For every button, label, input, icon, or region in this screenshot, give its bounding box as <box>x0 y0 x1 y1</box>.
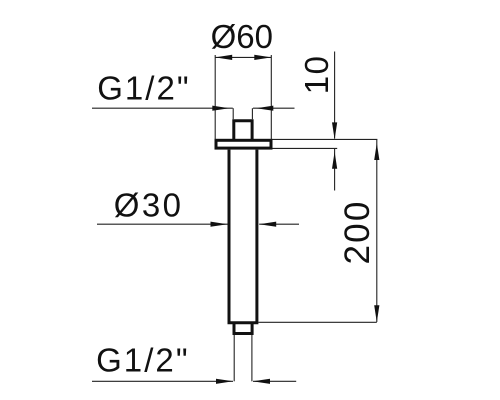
dim Ø60 arrow right <box>254 55 271 60</box>
dim G1/2 top extension lines <box>233 108 252 119</box>
svg-text:Ø60: Ø60 <box>211 18 273 55</box>
dim G1/2 bottom arrow right <box>253 379 270 384</box>
dim G1/2 bottom arrow left <box>216 379 233 384</box>
dim G1/2 top leader left with arrow <box>92 107 233 109</box>
bottom thread collar <box>234 323 252 334</box>
dim Ø30 leader left with arrow <box>97 223 228 225</box>
dim 10 upper line with down arrow <box>334 52 336 139</box>
extension line tube bottom (for 200) <box>258 321 376 323</box>
dim G1/2 bottom leader left with arrow <box>92 380 233 382</box>
dim Ø30 leader right with arrow <box>259 223 299 225</box>
dim Ø60 dimension line <box>215 56 271 58</box>
dim 10 lower line with up arrow <box>334 149 336 191</box>
dim G1/2 bottom leader right with arrow <box>253 380 296 382</box>
dim 200 dimension line <box>376 140 378 322</box>
dim Ø60 extension line left <box>214 55 216 140</box>
top thread stub G1/2 <box>234 121 252 140</box>
svg-text:200: 200 <box>338 200 377 265</box>
dim Ø30 arrow right <box>259 222 276 227</box>
dim G1/2 top arrow right <box>256 106 273 111</box>
svg-text:Ø30: Ø30 <box>114 187 184 224</box>
extension line flange bottom (for 10) <box>273 147 338 149</box>
svg-text:G1/2": G1/2" <box>97 70 191 107</box>
arm tube Ø30 <box>229 150 257 323</box>
dim G1/2 top leader right with arrow <box>253 107 295 109</box>
dim 200 up arrow (top) <box>374 143 379 160</box>
dim G1/2 top arrow left <box>212 106 229 111</box>
dim Ø60 arrow left <box>215 55 232 60</box>
flange (ceiling escutcheon, Ø60 disc) <box>216 140 271 148</box>
dim 10 down arrow <box>332 122 337 139</box>
dim Ø30 arrow left <box>211 222 228 227</box>
svg-text:10: 10 <box>298 55 335 95</box>
dim 200 down arrow (bottom) <box>374 305 379 322</box>
extension line flange top (for 10 and 200) <box>273 138 378 140</box>
bottom thread body (thin lines) <box>234 335 252 381</box>
dim Ø60 extension line right <box>270 55 272 140</box>
svg-text:G1/2": G1/2" <box>96 342 190 379</box>
dim 10 up arrow <box>332 152 337 169</box>
